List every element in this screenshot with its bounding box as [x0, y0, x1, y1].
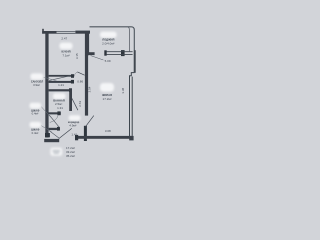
corridor label plate: [69, 115, 81, 120]
svg-text:2.0/4.0м²: 2.0/4.0м²: [102, 41, 114, 45]
loggia outline inner right: [128, 27, 129, 51]
bathroom bottom wall: [47, 112, 60, 114]
bottom-left foot wall: [44, 139, 59, 142]
kitchen right / corridor wall: [85, 31, 89, 55]
svg-text:35.2м²: 35.2м²: [66, 154, 75, 158]
loggia outline top: [90, 27, 135, 73]
closet B label plate: [30, 122, 42, 128]
svg-text:7.1м²: 7.1м²: [62, 53, 69, 57]
svg-text:33.2м²: 33.2м²: [66, 150, 75, 154]
texts: [31, 36, 125, 158]
kitchen bottom wall: [49, 75, 74, 77]
svg-text:2.63: 2.63: [78, 101, 82, 107]
kitchen label plate: [60, 43, 73, 50]
summary logo plate: [50, 148, 62, 156]
svg-text:1.41: 1.41: [71, 133, 77, 137]
left wall dark post near bottom: [45, 133, 50, 137]
5.09 dim leader: [91, 56, 104, 60]
closet divider wall: [49, 128, 60, 130]
living room door leaf: [85, 116, 94, 128]
leader label 2: [41, 107, 52, 119]
closet A diagonal: [49, 115, 59, 127]
svg-text:3.38: 3.38: [121, 87, 125, 93]
svg-text:3.15: 3.15: [75, 53, 79, 59]
svg-text:2.47: 2.47: [61, 36, 67, 40]
svg-text:2.54: 2.54: [88, 86, 92, 92]
leader label 1: [44, 77, 57, 81]
kitchen window (thin double line): [57, 31, 76, 33]
svg-text:17.2м²: 17.2м²: [66, 146, 75, 150]
entry door leaf: [59, 128, 72, 138]
svg-text:0.4м²: 0.4м²: [32, 131, 39, 135]
toilet bottom wall: [49, 89, 72, 91]
closet A door arc: [50, 115, 58, 123]
top wall left cap: [42, 29, 44, 34]
right wall double line: [130, 76, 133, 138]
shaft diagonal: [49, 76, 71, 81]
living room door post + wall to bottom: [84, 126, 87, 141]
balcony door post: [104, 50, 106, 55]
bottom wall main segment: [75, 136, 133, 139]
bathroom door leaf: [72, 98, 78, 110]
svg-text:5.09: 5.09: [105, 59, 111, 63]
logo marks inside summary plate: [53, 150, 60, 154]
window mullion post: [121, 50, 125, 56]
svg-text:0.4м²: 0.4м²: [32, 112, 39, 116]
svg-text:2.5м²: 2.5м²: [55, 102, 62, 106]
top wall solid left part: [42, 31, 56, 34]
right wall upper segment (thicker beside living room): [134, 50, 136, 73]
loggia window of living room (double line): [107, 52, 133, 55]
loggia label plate: [100, 32, 117, 38]
leader label 3: [41, 126, 52, 133]
top wall solid right part: [75, 31, 90, 34]
svg-text:3.08: 3.08: [105, 129, 111, 133]
svg-text:4.9м²: 4.9м²: [69, 124, 76, 128]
right wall jog: [129, 73, 134, 76]
WC outside label plate: [31, 73, 44, 79]
left outer wall: [45, 31, 48, 138]
bathroom right wall: [69, 89, 72, 111]
bathroom label plate: [53, 93, 66, 99]
living room label plate: [100, 83, 114, 92]
living room top wall stub: [86, 52, 95, 55]
svg-text:0.9м²: 0.9м²: [33, 83, 40, 87]
white plates: [30, 32, 117, 156]
kitchen door leaf: [77, 72, 84, 75]
shaft bottom wall: [49, 81, 74, 83]
svg-text:17.2м²: 17.2м²: [103, 97, 112, 101]
svg-text:1.31: 1.31: [57, 106, 63, 110]
walls: [42, 29, 133, 142]
svg-text:0.86: 0.86: [77, 80, 83, 84]
closet B diagonal: [49, 131, 59, 139]
closet A label plate: [30, 103, 42, 109]
svg-text:1.21: 1.21: [58, 83, 64, 87]
